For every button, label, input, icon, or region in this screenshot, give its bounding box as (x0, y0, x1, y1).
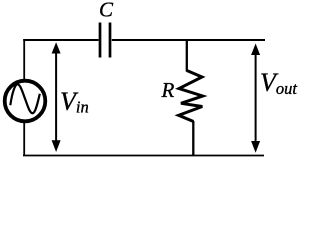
svg-text:C: C (99, 0, 114, 22)
capacitor C1 left plate (99, 23, 102, 58)
Vin arrow shaft (55, 50, 57, 143)
Vout arrow head down (251, 141, 260, 153)
Vout arrow shaft (255, 51, 257, 142)
Vout arrow head up (251, 44, 260, 56)
Vin arrow head up (52, 42, 61, 53)
wire top-right segment (112, 39, 265, 41)
resistor R1 top lead wire (186, 39, 188, 72)
svg-text:Vout: Vout (260, 68, 297, 98)
AC source V1 circle (5, 81, 46, 122)
capacitor C1 right plate (109, 23, 112, 58)
wire bottom (23, 155, 264, 157)
wire left upper (23, 39, 25, 82)
Vin arrow head down (52, 140, 61, 152)
resistor R1 zigzag (179, 71, 203, 122)
wire top-left segment (23, 39, 98, 41)
svg-text:Vin: Vin (60, 87, 89, 117)
svg-text:R: R (161, 78, 175, 102)
wire left lower (23, 120, 25, 156)
AC source sine wave (10, 84, 40, 113)
resistor R1 bottom lead wire (192, 121, 194, 156)
